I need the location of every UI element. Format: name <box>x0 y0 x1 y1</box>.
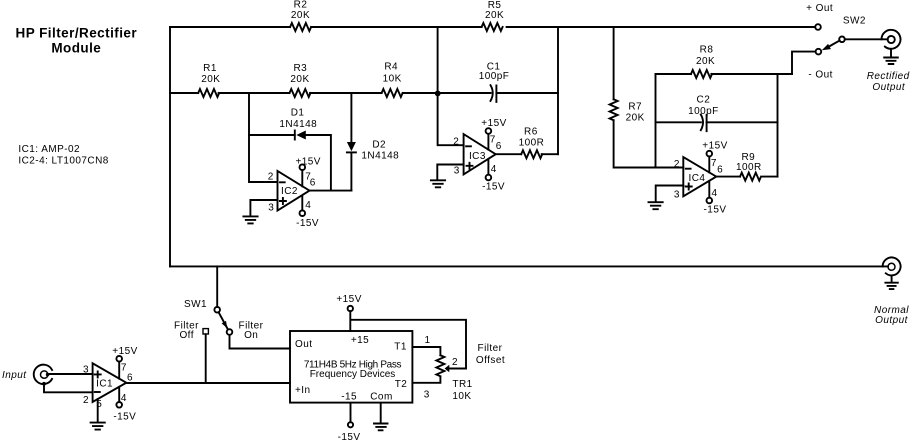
svg-text:Output: Output <box>872 82 905 93</box>
svg-text:5: 5 <box>96 399 102 410</box>
wire left vertical of main loop x=170 <box>169 27 171 266</box>
wire filter-off stub x=205.7 <box>205 334 207 383</box>
svg-text:2: 2 <box>453 137 459 148</box>
resistor R7 vertical <box>610 99 618 120</box>
svg-text:2: 2 <box>452 357 458 368</box>
svg-text:Output: Output <box>875 315 908 326</box>
ground IC2 pin3 <box>243 216 257 223</box>
switch SW1 arm with arrowhead <box>219 312 228 328</box>
svg-text:+In: +In <box>295 385 311 396</box>
op-amp IC4 pin7 lead and +15V pad <box>708 157 710 173</box>
svg-text:R2: R2 <box>294 0 308 10</box>
trimmer TR1 wiper arrow <box>445 365 450 373</box>
svg-text:6: 6 <box>496 141 502 152</box>
svg-text:2: 2 <box>83 395 89 406</box>
resistor R4 <box>382 89 403 97</box>
svg-text:SW1: SW1 <box>184 299 207 310</box>
svg-text:3: 3 <box>268 202 274 213</box>
svg-text:SW2: SW2 <box>843 16 866 27</box>
wire SW1 pole drop x=217.2 <box>216 266 218 306</box>
wire SW1 filter-on contact to module Out <box>230 335 291 349</box>
svg-text:1: 1 <box>424 335 430 346</box>
wire IC2 output y=190.6 <box>310 190 352 192</box>
svg-text:TR1: TR1 <box>452 379 472 390</box>
svg-text:-15V: -15V <box>482 182 505 193</box>
diode D2 <box>347 142 356 151</box>
svg-text:4: 4 <box>305 200 311 211</box>
svg-text:Input: Input <box>2 370 27 381</box>
svg-text:Filter: Filter <box>478 343 503 354</box>
terminal +Out pad <box>815 24 821 30</box>
wire vertical x=777.5 rectifier output node <box>777 74 779 177</box>
svg-text:6: 6 <box>127 373 133 384</box>
op-amp IC3 pin4 lead and -15V pad <box>487 159 489 174</box>
capacitor C2 <box>701 115 707 132</box>
svg-text:20K: 20K <box>485 10 504 21</box>
svg-text:100pF: 100pF <box>479 71 510 82</box>
svg-text:-15V: -15V <box>296 218 319 229</box>
svg-text:1N4148: 1N4148 <box>361 150 399 161</box>
svg-text:T2: T2 <box>395 379 408 390</box>
ground Rectified Output BNC <box>884 49 898 64</box>
svg-text:3: 3 <box>83 364 89 375</box>
op-amp IC4 pin4 lead and -15V pad <box>708 181 710 197</box>
svg-text:100pF: 100pF <box>688 106 719 117</box>
svg-text:6: 6 <box>310 177 316 188</box>
resistor R1 <box>198 89 219 97</box>
resistor R9 <box>740 173 761 181</box>
terminal filter-off square <box>203 329 208 334</box>
svg-text:100R: 100R <box>736 162 762 173</box>
svg-text:1N4148: 1N4148 <box>279 119 317 130</box>
op-amp IC2 plus mark pin3 <box>280 198 286 204</box>
svg-text:7: 7 <box>711 158 717 169</box>
op-amp IC2 minus mark pin2 <box>280 181 285 183</box>
svg-text:R6: R6 <box>524 126 538 137</box>
wire R8 rail y=74 <box>656 73 793 75</box>
svg-text:+15V: +15V <box>481 118 506 129</box>
op-amp IC1 <box>93 363 127 402</box>
svg-text:+15V: +15V <box>702 141 727 152</box>
op-amp IC3 pin7 lead and +15V pad <box>487 134 489 149</box>
svg-text:Module: Module <box>51 40 101 55</box>
node junction dot at (438,93) <box>435 91 441 97</box>
wire R7 branch from top rail to IC4 pin2 <box>614 27 684 168</box>
wire module Com pin <box>380 403 382 423</box>
svg-text:- Out: - Out <box>808 69 832 80</box>
diode D1 <box>294 131 296 140</box>
svg-text:Offset: Offset <box>476 355 505 366</box>
svg-text:3: 3 <box>454 165 460 176</box>
svg-text:-15V: -15V <box>338 432 361 440</box>
resistor R3 <box>290 89 311 97</box>
wire D2 branch x=351.4 <box>350 93 352 191</box>
svg-text:C2: C2 <box>697 95 711 106</box>
svg-text:20K: 20K <box>201 74 220 85</box>
op-amp IC1 pin7 lead and +15V pad <box>118 362 120 379</box>
svg-text:R8: R8 <box>700 44 714 55</box>
svg-text:R3: R3 <box>293 63 307 74</box>
wire IC3 output y=154.2 <box>496 153 558 155</box>
switch SW2 pole contact <box>839 37 845 43</box>
svg-text:Frequency Devices: Frequency Devices <box>310 369 396 380</box>
connector Input jack <box>34 365 52 384</box>
wire module T1 to TR1 <box>412 347 440 355</box>
op-amp IC3 plus mark pin3 <box>467 163 473 169</box>
op-amp IC1 minus mark pin2 <box>95 391 100 393</box>
svg-text:-15: -15 <box>341 392 357 403</box>
op-amp IC2 pin4 lead and -15V pad <box>301 196 303 210</box>
svg-text:IC2: IC2 <box>281 186 298 197</box>
switch SW1 pole contact <box>214 307 220 313</box>
svg-text:4: 4 <box>491 164 497 175</box>
svg-text:Com: Com <box>370 392 392 403</box>
wire input jack tip to IC1 pin3 <box>48 373 93 375</box>
wire top feedback rail y=27 <box>170 26 815 28</box>
module +15V supply pad <box>348 306 353 311</box>
svg-text:+ Out: + Out <box>806 3 833 14</box>
svg-text:100R: 100R <box>519 138 545 149</box>
svg-text:2: 2 <box>674 159 680 170</box>
wire IC4 pin3 to ground <box>656 186 684 202</box>
svg-text:T1: T1 <box>394 342 407 353</box>
resistor R5 <box>482 23 503 31</box>
wire bottom loop rail y=266.4 <box>170 265 888 267</box>
svg-text:+15V: +15V <box>295 157 320 168</box>
svg-text:R9: R9 <box>741 152 755 163</box>
svg-text:On: On <box>244 330 258 341</box>
svg-text:4: 4 <box>711 188 717 199</box>
svg-text:R4: R4 <box>384 61 398 72</box>
op-amp IC4 <box>683 157 716 196</box>
svg-text:20K: 20K <box>290 74 309 85</box>
switch SW2 arm with arrowhead <box>829 41 839 47</box>
op-amp IC3 minus mark pin2 <box>466 145 471 147</box>
svg-text:20K: 20K <box>291 10 310 21</box>
op-amp IC2 <box>278 171 310 211</box>
wire vertical x=438 top rail to junction to IC3 pin2 <box>438 27 464 145</box>
svg-text:3: 3 <box>674 189 680 200</box>
svg-text:20K: 20K <box>696 56 715 67</box>
switch SW2 minus-out contact <box>816 49 822 55</box>
svg-text:IC1: IC1 <box>96 379 113 390</box>
connector Rectified Output BNC <box>882 30 901 49</box>
ground Normal Output BNC <box>885 276 897 290</box>
switch SW1 filter-on contact <box>227 329 233 335</box>
svg-text:6: 6 <box>717 164 723 175</box>
svg-text:Rectified: Rectified <box>867 71 910 82</box>
svg-text:D1: D1 <box>291 108 305 119</box>
wire IC2 pin2 leg x=249 <box>249 93 278 182</box>
svg-text:IC1: AMP-02: IC1: AMP-02 <box>18 144 80 155</box>
wire vertical x=558 IC3 output node <box>557 27 559 154</box>
ground IC3 pin3 <box>431 180 445 187</box>
ground IC1 pin5 <box>91 423 105 430</box>
connector Normal Output BNC <box>883 257 901 275</box>
resistor R2 <box>290 23 311 31</box>
svg-text:4: 4 <box>121 393 127 404</box>
ground module Com <box>374 424 388 431</box>
wire SW2 minus-out drop x=792 <box>792 52 816 74</box>
module -15V supply pad <box>348 422 353 427</box>
svg-text:Out: Out <box>295 339 312 350</box>
svg-text:R7: R7 <box>628 101 642 112</box>
wire SW2 pole to rectified BNC y=39.3 <box>845 38 888 40</box>
svg-text:10K: 10K <box>383 73 402 84</box>
op-amp IC4 plus mark pin3 <box>686 184 692 190</box>
trimmer TR1 vertical <box>436 355 444 376</box>
op-amp IC4 minus mark pin2 <box>686 168 691 170</box>
resistor R6 <box>521 150 542 158</box>
svg-text:+15V: +15V <box>112 346 137 357</box>
wire input jack sleeve to IC1 pin2 <box>44 385 93 392</box>
wire IC4 output y=176.6 <box>716 176 777 178</box>
ground IC4 pin3 <box>649 202 663 209</box>
svg-text:-15V: -15V <box>113 411 136 422</box>
svg-text:3: 3 <box>424 389 430 400</box>
wire IC2 pin3 to ground <box>250 200 277 216</box>
capacitor C1 <box>491 85 497 102</box>
op-amp IC3 <box>464 134 496 174</box>
wire module -15 pin <box>350 403 352 422</box>
op-amp IC1 plus mark pin3 <box>95 371 101 377</box>
svg-text:+15V: +15V <box>336 294 361 305</box>
wire module T2 to TR1 <box>412 377 440 383</box>
svg-text:HP Filter/Rectifier: HP Filter/Rectifier <box>16 25 138 40</box>
op-amp IC2 pin7 lead and +15V pad <box>301 171 303 186</box>
svg-text:IC2-4: LT1007CN8: IC2-4: LT1007CN8 <box>18 155 108 166</box>
svg-text:D2: D2 <box>372 140 386 151</box>
wire vertical x=655.5 R8/C2 left leg <box>655 74 657 168</box>
resistor R8 <box>691 70 712 78</box>
svg-text:10K: 10K <box>452 391 471 402</box>
svg-text:+15: +15 <box>351 335 369 346</box>
wire input summing rail y=93 <box>170 92 558 94</box>
wire C2 rail y=122.3 <box>656 121 778 123</box>
wire module +15 pin and filter-offset feed <box>350 311 466 368</box>
op-amp IC1 pin5 lead <box>97 399 99 422</box>
svg-text:2: 2 <box>268 171 274 182</box>
module U1 711H4B box <box>290 331 412 403</box>
svg-text:Off: Off <box>179 330 194 341</box>
svg-text:20K: 20K <box>626 113 645 124</box>
svg-text:R1: R1 <box>203 63 217 74</box>
svg-text:IC4: IC4 <box>689 173 706 184</box>
wire D1 feedback branch y=135 <box>249 135 331 191</box>
svg-text:-15V: -15V <box>704 204 727 215</box>
wire IC3 pin3 to ground <box>437 165 463 180</box>
svg-text:IC3: IC3 <box>469 151 486 162</box>
wire IC1 output to module +In y=383 <box>126 382 290 384</box>
op-amp IC1 pin4 lead and -15V pad <box>118 387 120 402</box>
